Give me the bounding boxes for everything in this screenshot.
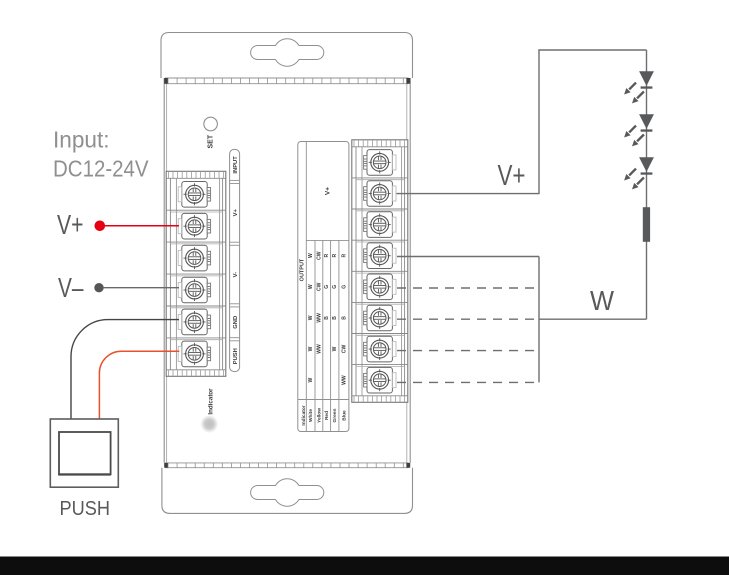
node V+ input dot: [95, 221, 106, 232]
indicator LED dot: [200, 415, 218, 433]
svg-text:G: G: [332, 285, 338, 289]
svg-text:G: G: [341, 285, 347, 289]
push button switch S1: [50, 419, 118, 487]
wire dashed channel (terminal 5): [397, 287, 539, 289]
svg-text:G: G: [324, 285, 330, 289]
svg-text:PUSH: PUSH: [233, 348, 239, 364]
svg-text:B: B: [332, 316, 338, 320]
wire dashed channel (terminal 7): [397, 350, 539, 352]
wire vertical bus: [538, 257, 540, 383]
terminal input2 screw: [178, 213, 210, 239]
wire dashed channel (terminal 6): [397, 318, 539, 320]
wire V- input: [103, 287, 179, 289]
svg-text:V-: V-: [233, 272, 239, 278]
svg-text:Red: Red: [324, 411, 330, 420]
terminal output3 screw: [364, 212, 396, 238]
wire dashed channel (terminal 8): [397, 381, 539, 383]
V- input label: [233, 272, 239, 278]
wire W return from LED string: [539, 318, 647, 320]
LED D2: [624, 114, 654, 146]
bottom serrated joint strip: [164, 463, 410, 468]
terminal block output outline: [352, 140, 408, 403]
wire LED string vertical: [646, 50, 648, 319]
V+ output annotation: [498, 160, 526, 192]
wire PUSH to push switch (orange): [99, 351, 179, 419]
terminal input5 screw: [178, 309, 210, 335]
svg-text:W: W: [308, 253, 314, 258]
svg-text:CW: CW: [316, 282, 322, 291]
wire V+ output to LED string: [397, 50, 647, 194]
svg-text:B: B: [341, 316, 347, 320]
controller bottom mounting tab: [162, 468, 413, 514]
terminal output5 screw: [364, 274, 396, 300]
svg-text:White: White: [308, 409, 314, 422]
svg-text:Yellow: Yellow: [316, 408, 322, 423]
table row labels: [301, 405, 347, 425]
terminal input1 screw: [178, 182, 210, 208]
svg-text:PUSH: PUSH: [60, 498, 111, 520]
PUSH label: [233, 348, 239, 364]
top serrated joint strip: [164, 78, 410, 84]
svg-text:R: R: [332, 254, 338, 258]
svg-text:GND: GND: [233, 316, 239, 329]
terminal input4 screw: [178, 277, 210, 303]
svg-text:Input:: Input:: [53, 127, 110, 153]
svg-text:W: W: [332, 346, 338, 351]
svg-text:R: R: [341, 254, 347, 258]
SET label: [208, 134, 215, 148]
terminal output4 screw: [364, 243, 396, 269]
table V+ cell label: [325, 187, 332, 195]
Input voltage note: [53, 127, 149, 182]
resistor R1: [643, 207, 650, 242]
svg-text:R: R: [324, 254, 330, 258]
V+ input annotation: [57, 209, 84, 240]
svg-text:V–: V–: [58, 272, 84, 303]
input label column frame: [230, 149, 240, 371]
PUSH switch label: [60, 498, 111, 520]
LED D3: [624, 157, 654, 189]
LED D1: [624, 71, 654, 103]
controller body sides: [164, 78, 410, 463]
terminal output1 screw: [364, 150, 396, 176]
W channel annotation: [590, 285, 614, 316]
svg-text:V+: V+: [498, 160, 526, 192]
output mapping table frame: [298, 142, 349, 432]
wire GND to push switch: [71, 320, 179, 419]
V+ input label: [233, 209, 239, 217]
svg-text:OUTPUT: OUTPUT: [300, 258, 306, 281]
terminal block input outline: [166, 171, 226, 376]
svg-text:W: W: [590, 285, 614, 316]
svg-text:INPUT: INPUT: [233, 156, 239, 174]
SET button: [204, 117, 218, 131]
table OUTPUT header: [300, 258, 306, 281]
GND label: [233, 316, 239, 329]
terminal output7 screw: [364, 336, 396, 362]
svg-text:V+: V+: [325, 187, 332, 195]
footer bar: [0, 557, 729, 575]
svg-text:WW: WW: [316, 313, 322, 323]
svg-text:DC12-24V: DC12-24V: [53, 156, 149, 182]
terminal output6 screw: [364, 305, 396, 331]
svg-text:WW: WW: [316, 344, 322, 354]
svg-text:Blue: Blue: [341, 410, 347, 421]
terminal input6 screw: [178, 341, 210, 367]
svg-text:W: W: [308, 377, 314, 382]
svg-text:W: W: [308, 315, 314, 320]
svg-text:WW: WW: [341, 375, 347, 385]
svg-text:B: B: [324, 316, 330, 320]
svg-text:CW: CW: [341, 345, 347, 354]
svg-text:Green: Green: [332, 409, 338, 423]
svg-text:W: W: [308, 284, 314, 289]
svg-text:SET: SET: [208, 134, 215, 148]
svg-text:Indicator: Indicator: [301, 405, 307, 425]
terminal input3 screw: [178, 245, 210, 271]
terminal output2 screw: [364, 181, 396, 207]
svg-text:W: W: [308, 346, 314, 351]
svg-text:V+: V+: [57, 209, 84, 240]
wire V+ input (red): [103, 225, 179, 227]
Indicator label: [208, 388, 215, 415]
INPUT label: [233, 156, 239, 174]
wire channel bus solid (terminal 4): [397, 256, 539, 258]
V- input annotation: [58, 272, 84, 303]
terminal output8 screw: [364, 367, 396, 393]
svg-text:Indicator: Indicator: [208, 388, 215, 415]
table channel letters: [308, 251, 347, 385]
svg-text:CW: CW: [316, 251, 322, 260]
node V- input dot: [94, 283, 103, 292]
controller top mounting tab: [161, 33, 413, 79]
svg-text:V+: V+: [233, 209, 239, 217]
